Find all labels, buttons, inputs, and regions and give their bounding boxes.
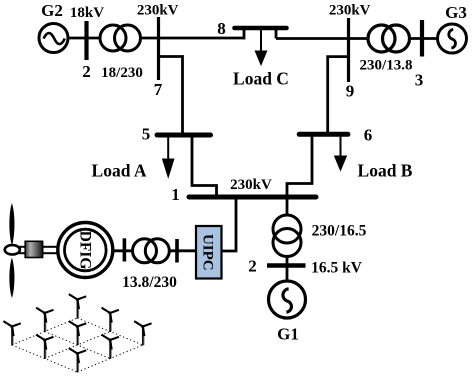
svg-text:18kV: 18kV — [70, 5, 104, 21]
svg-text:DFIG: DFIG — [76, 231, 93, 270]
svg-text:3: 3 — [415, 71, 424, 90]
svg-text:9: 9 — [346, 82, 355, 101]
svg-text:1: 1 — [171, 185, 180, 204]
svg-text:5: 5 — [142, 125, 151, 144]
svg-text:2: 2 — [248, 257, 257, 276]
svg-text:G1: G1 — [277, 325, 299, 344]
svg-text:230/13.8: 230/13.8 — [360, 58, 413, 74]
svg-text:16.5 kV: 16.5 kV — [311, 260, 363, 277]
svg-text:230kV: 230kV — [329, 2, 371, 18]
svg-text:G3: G3 — [445, 3, 467, 22]
svg-text:2: 2 — [82, 62, 91, 81]
svg-text:230kV: 230kV — [137, 2, 179, 18]
svg-text:6: 6 — [364, 126, 373, 145]
svg-text:Load C: Load C — [233, 69, 289, 89]
svg-text:Load A: Load A — [92, 161, 147, 181]
svg-text:Load B: Load B — [358, 161, 413, 181]
svg-text:UIPC: UIPC — [199, 234, 215, 271]
svg-text:7: 7 — [154, 80, 163, 99]
svg-text:18/230: 18/230 — [101, 65, 143, 81]
svg-text:8: 8 — [217, 19, 226, 38]
svg-text:230/16.5: 230/16.5 — [312, 223, 367, 240]
svg-text:13.8/230: 13.8/230 — [122, 274, 177, 291]
svg-text:G2: G2 — [41, 1, 63, 20]
svg-text:230kV: 230kV — [230, 177, 272, 193]
